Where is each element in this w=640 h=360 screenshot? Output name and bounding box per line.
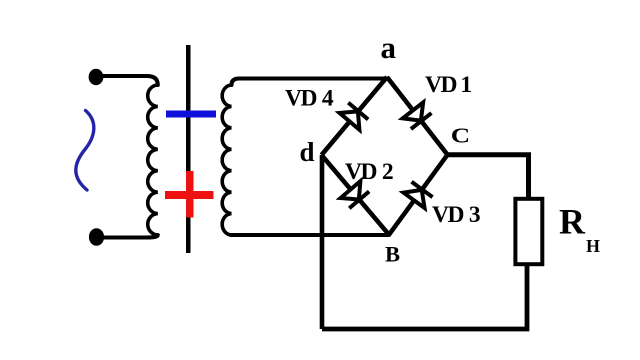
- bridge arm wire a to C: [387, 77, 448, 155]
- wire node C to resistor top: [448, 155, 529, 197]
- polarity marker plus (red) horizontal: [165, 191, 214, 199]
- transformer primary winding: [148, 85, 158, 235]
- svg-text:H: H: [586, 236, 600, 256]
- terminal dot bottom: [89, 228, 104, 246]
- diode VD2: [341, 181, 370, 208]
- wire secondary bottom to node B: [232, 233, 390, 237]
- terminal dot top: [89, 69, 104, 85]
- wire secondary top to node a: [232, 79, 388, 86]
- wire bottom terminal to primary: [97, 235, 158, 238]
- wire top terminal to primary: [96, 76, 158, 85]
- svg-text:VD 2: VD 2: [345, 159, 393, 185]
- svg-text:VD 3: VD 3: [432, 202, 480, 228]
- transformer core: [186, 45, 191, 253]
- resistor RH load: [515, 199, 542, 264]
- AC source sine symbol: [76, 111, 94, 191]
- wire bottom return to resistor: [322, 266, 527, 329]
- diode VD4: [340, 103, 369, 130]
- wire node d down to bottom return: [320, 155, 325, 329]
- polarity marker plus (red) vertical: [186, 171, 194, 218]
- svg-text:a: a: [381, 30, 397, 65]
- bridge arm wire d to a: [322, 77, 388, 155]
- polarity marker minus (blue): [166, 111, 216, 118]
- diode VD1: [403, 102, 432, 129]
- bridge arm wire d to B: [322, 155, 390, 235]
- svg-text:VD 1: VD 1: [425, 72, 471, 98]
- svg-text:VD 4: VD 4: [285, 86, 334, 112]
- svg-text:B: B: [385, 242, 400, 267]
- svg-text:R: R: [559, 202, 586, 242]
- diode VD3: [404, 182, 433, 208]
- transformer secondary winding: [222, 85, 231, 235]
- svg-text:C: C: [451, 124, 470, 148]
- svg-text:d: d: [300, 137, 315, 167]
- bridge arm wire B to C: [389, 155, 448, 235]
